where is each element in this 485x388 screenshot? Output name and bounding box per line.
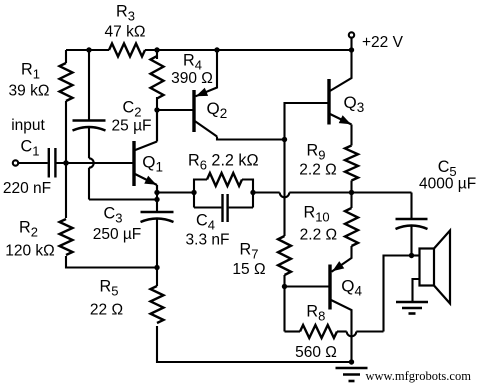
svg-text:39 kΩ: 39 kΩ <box>9 83 50 100</box>
svg-text:3.3 nF: 3.3 nF <box>186 232 230 249</box>
svg-text:2.2 Ω: 2.2 Ω <box>300 227 337 244</box>
svg-text:+22 V: +22 V <box>362 34 404 51</box>
svg-text:250 µF: 250 µF <box>93 226 142 243</box>
svg-text:47 kΩ: 47 kΩ <box>105 24 146 41</box>
svg-text:15 Ω: 15 Ω <box>232 261 265 278</box>
svg-text:4000 µF: 4000 µF <box>419 176 476 193</box>
svg-text:input: input <box>11 117 45 134</box>
svg-text:22 Ω: 22 Ω <box>90 302 123 319</box>
svg-text:390 Ω: 390 Ω <box>171 70 213 87</box>
svg-text:220 nF: 220 nF <box>3 180 51 197</box>
svg-text:120 kΩ: 120 kΩ <box>5 243 55 260</box>
svg-text:2.2 Ω: 2.2 Ω <box>299 162 336 179</box>
svg-text:www.mfgrobots.com: www.mfgrobots.com <box>366 369 472 383</box>
svg-text:560 Ω: 560 Ω <box>295 344 337 361</box>
svg-text:R6 2.2 kΩ: R6 2.2 kΩ <box>188 152 259 173</box>
svg-text:25 µF: 25 µF <box>112 118 152 135</box>
